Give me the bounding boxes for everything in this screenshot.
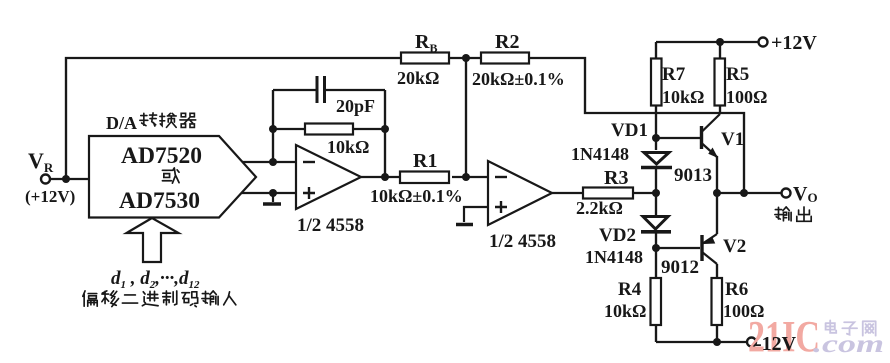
wire: feedback resistor right lead — [353, 128, 385, 130]
svg-text:R7: R7 — [662, 64, 686, 85]
op-amp U1 input signs — [303, 162, 315, 199]
wire: feedback right vertical — [384, 90, 386, 177]
node: VD1 anode / V1 base — [652, 134, 660, 142]
svg-text:20kΩ±0.1%: 20kΩ±0.1% — [472, 69, 565, 89]
diode VD1 — [641, 153, 672, 168]
svg-text:R6: R6 — [725, 279, 748, 300]
wire: feedback resistor left lead — [273, 128, 305, 130]
wire: U1 output to R1 — [361, 176, 401, 178]
node: RB/R2 junction — [462, 54, 470, 62]
svg-text:10kΩ: 10kΩ — [604, 301, 646, 321]
svg-text:10kΩ: 10kΩ — [327, 137, 369, 157]
wire: DAC to op-amp U1 inverting input — [240, 161, 296, 163]
wire: DAC to op-amp U1 non-inverting input — [240, 192, 296, 194]
svg-text:R3: R3 — [604, 167, 628, 189]
svg-text:(+12V): (+12V) — [25, 187, 75, 206]
svg-text:9012: 9012 — [661, 257, 699, 278]
wire: R1 to U2 inverting input — [452, 176, 488, 178]
wire: R5 top lead — [719, 42, 721, 59]
terminal VR — [41, 175, 50, 184]
resistor RF 10k feedback body — [305, 124, 353, 135]
resistor R4 body — [651, 278, 662, 325]
wire: base node to V1 base — [656, 137, 700, 139]
svg-text:VD2: VD2 — [599, 225, 636, 246]
svg-text:20kΩ: 20kΩ — [397, 68, 439, 88]
svg-text:D/A: D/A — [106, 113, 137, 133]
svg-text:VD1: VD1 — [611, 120, 648, 141]
DAC input arrow (hollow, pointing up) — [127, 218, 179, 262]
svg-text:AD7530: AD7530 — [119, 188, 200, 214]
node: VD2 cathode / V2 base — [652, 244, 660, 252]
svg-text:1N4148: 1N4148 — [571, 144, 629, 164]
wire: feedback top to capacitor — [273, 89, 316, 91]
resistor R3 body — [583, 188, 633, 199]
node: +12V rail at R5 — [716, 38, 724, 46]
svg-text:R2: R2 — [495, 31, 519, 53]
wire: junction RB/R2 down to R1 wire — [465, 58, 467, 177]
node: R1 wire junction — [462, 173, 470, 181]
caption 转换器 (of D/A转换器) — [140, 113, 196, 128]
svg-text:-12V: -12V — [755, 333, 797, 355]
wire: V1 emitter vertical to output node — [716, 156, 718, 193]
ground at U1 non-inverting input — [263, 193, 281, 204]
node: R3/diode chain — [652, 189, 660, 197]
svg-text:1N4148: 1N4148 — [585, 247, 643, 267]
DAC U1 AD7520/AD7530 body — [89, 136, 256, 218]
wire: capacitor to feedback right vertical — [325, 89, 385, 91]
terminal Vo — [782, 189, 791, 198]
node: output at V1 emitter — [713, 189, 721, 197]
wire: VR terminal to DAC left edge — [50, 178, 89, 180]
transistor V1 9013 (NPN) — [702, 114, 721, 157]
svg-text:20pF: 20pF — [336, 96, 375, 116]
wire: output line to Vo terminal — [717, 192, 781, 194]
wire: U2 output to R3 — [552, 192, 583, 194]
wire: +12V rail — [656, 41, 758, 43]
svg-text:V1: V1 — [721, 129, 744, 150]
node: U1 output — [381, 173, 389, 181]
wire: R7 bottom lead (crosses feedback line) — [655, 105, 657, 138]
node: -12V rail at R6 — [713, 338, 721, 346]
svg-text:+12V: +12V — [771, 32, 817, 54]
caption 偏移二进制码输入 — [83, 291, 236, 307]
svg-text:V2: V2 — [723, 236, 746, 257]
svg-text:R4: R4 — [618, 279, 642, 300]
wire: R3 to diode chain node — [633, 192, 656, 194]
svg-text:10kΩ±0.1%: 10kΩ±0.1% — [370, 186, 463, 206]
svg-text:R5: R5 — [726, 64, 749, 85]
wire: V2 collector to R6 — [716, 264, 718, 278]
resistor R6 body — [712, 278, 723, 325]
wire: VR junction up and across top to RB — [66, 58, 401, 179]
caption 输出 (output) — [775, 207, 811, 221]
resistor R2 body — [481, 53, 529, 64]
terminal -12V — [747, 338, 756, 347]
resistor R1 body — [400, 172, 449, 184]
resistor R7 body — [651, 59, 662, 106]
wire: R6 bottom lead — [716, 325, 718, 342]
op-amp U2 input signs — [495, 177, 507, 213]
wire: R5 bottom lead to V1 collector — [719, 105, 721, 114]
svg-text:9013: 9013 — [674, 165, 712, 186]
node: U1 inverting input — [269, 158, 277, 166]
node: output at feedback vertical — [740, 189, 748, 197]
svg-text:R1: R1 — [413, 150, 437, 172]
ground at U2 non-inverting input — [456, 207, 488, 225]
svg-text:.com: .com — [813, 331, 884, 358]
wire: R7 top lead — [655, 42, 657, 59]
wire: output node down to V2 emitter — [716, 193, 718, 234]
wire: R4 top lead — [655, 248, 657, 278]
wire: -12V rail — [656, 341, 747, 343]
wire: diode chain vertical VD2 area — [655, 193, 657, 216]
diode VD2 — [641, 217, 671, 232]
resistor RB body — [401, 53, 449, 64]
wire: R4 bottom lead — [655, 325, 657, 342]
op-amp U2 1/2 4558 triangle — [488, 161, 552, 225]
capacitor C 20pF plates — [317, 76, 325, 103]
wire: feedback loop left vertical — [272, 90, 274, 162]
resistor R5 body — [715, 59, 726, 106]
watermark 电子网 — [826, 320, 876, 335]
op-amp U1 1/2 4558 triangle — [296, 145, 361, 209]
node: feedback resistor right — [381, 125, 389, 133]
node: VR junction — [62, 175, 70, 183]
svg-text:1/2 4558: 1/2 4558 — [297, 215, 364, 236]
junction nodes — [62, 38, 748, 346]
svg-text:10kΩ: 10kΩ — [662, 87, 704, 107]
svg-text:2.2kΩ: 2.2kΩ — [576, 198, 623, 218]
caption 或 (between AD7520 and AD7530) — [162, 168, 179, 183]
svg-text:AD7520: AD7520 — [121, 143, 202, 169]
svg-text:100Ω: 100Ω — [726, 87, 767, 107]
wire: VD2 node to V2 base — [656, 247, 700, 249]
svg-text:1/2 4558: 1/2 4558 — [489, 231, 556, 252]
node: feedback resistor left — [269, 125, 277, 133]
wire: diode chain vertical VD1 area — [655, 138, 657, 150]
transistor V2 9012 (PNP) — [702, 234, 717, 264]
wire: R2 right, down, across (crossing R7 and R5 leads), down to output node — [529, 58, 744, 193]
terminal +12V — [759, 38, 768, 47]
node: U1 non-inverting input / ground stub — [269, 189, 277, 197]
wire: RB right to R2 left — [449, 57, 481, 59]
